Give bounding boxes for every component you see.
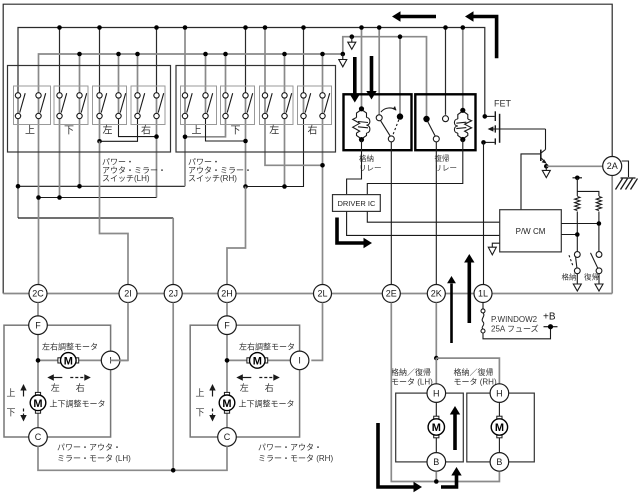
terminal H LH [427, 384, 446, 403]
svg-text:2A: 2A [607, 161, 618, 171]
svg-text:右: 右 [141, 124, 151, 137]
svg-text:FET: FET [494, 99, 512, 109]
wire relay2 coil to DRIVER IC [367, 140, 463, 195]
svg-text:DRIVER IC: DRIVER IC [337, 199, 376, 208]
up-down arrows LH [23, 388, 25, 397]
svg-text:1L: 1L [478, 289, 488, 299]
P/W CM box [500, 210, 562, 252]
wire RH col1+col3 join [184, 116, 186, 137]
flow arrow bottom (up hook) [441, 476, 457, 488]
wire I LH to 2I [111, 359, 128, 361]
wire relay1 coil to DRIVER IC [347, 140, 362, 195]
wire B: LH col2+col3+col8 to connector 2C [38, 116, 40, 294]
svg-text:下: 下 [195, 408, 204, 418]
wire E: RH col4+col6+col7 [246, 186, 285, 188]
wire connector row [3, 293, 612, 295]
relay1 coil [357, 110, 362, 118]
wire A: LH col1+col4 to RH col1 [17, 116, 19, 218]
relay1 contact motion arrow [381, 108, 396, 112]
wire bus2 riser and right segment [343, 37, 427, 116]
terminal bar with dot (power feed) [573, 177, 583, 179]
svg-text:C: C [35, 432, 42, 442]
wire RH col2+col4 join [206, 116, 246, 141]
wire relay2 contact to 2K [435, 142, 437, 294]
svg-text:2J: 2J [168, 289, 178, 299]
svg-text:上下調整モータ: 上下調整モータ [50, 399, 106, 409]
wire bus1 branch to LH col5 [99, 28, 101, 96]
svg-text:M: M [64, 355, 73, 367]
svg-text:2H: 2H [221, 289, 233, 299]
wire P/W CM right out1 [561, 223, 599, 225]
power outer mirror switch RH block [176, 66, 336, 153]
svg-text:P/W CM: P/W CM [516, 227, 546, 236]
wire bus1 branch to LH col8 [156, 28, 158, 96]
RH switch cell 2 [221, 86, 255, 125]
DRIVER IC box [333, 195, 381, 212]
wire ground loop: row left end up left edge, across top, down to 2A [3, 4, 612, 293]
svg-text:M: M [432, 422, 441, 434]
terminal I RH [290, 351, 309, 370]
wire 2C to F [37, 303, 39, 318]
wire row right end up to 2A [611, 175, 613, 294]
svg-text:2C: 2C [32, 289, 44, 299]
svg-text:左: 左 [269, 124, 279, 137]
svg-text:2L: 2L [317, 289, 327, 299]
wire H-M-B LH [435, 393, 437, 462]
motor M left-right RH [247, 358, 251, 363]
relay2 (return relay) box [415, 94, 475, 150]
wire DRIVER IC out2 to P/W CM [367, 211, 499, 222]
svg-text:C: C [224, 432, 231, 442]
RH switch cell 3 [260, 86, 294, 125]
svg-text:左: 左 [103, 124, 113, 137]
svg-text:モータ (LH): モータ (LH) [391, 378, 433, 387]
wire 2K down to junction [435, 303, 437, 359]
RH switch cell 4 [298, 86, 332, 125]
wire bus2 drop to relay1 contact right [399, 37, 401, 115]
LH switch cell 1 [14, 86, 51, 125]
wire I RH to 2L [311, 303, 322, 361]
svg-text:上: 上 [192, 125, 202, 137]
terminal F LH [29, 316, 48, 335]
connector 2C [29, 285, 47, 303]
svg-text:スイッチ(RH): スイッチ(RH) [188, 174, 237, 183]
svg-text:格納／復帰: 格納／復帰 [391, 367, 431, 377]
svg-text:パワー・アウタ・: パワー・アウタ・ [258, 443, 322, 452]
connector 2A [603, 157, 622, 176]
mirror motor box LH [4, 325, 111, 437]
flow arrow bottom (L-shaped) [378, 423, 414, 487]
switch 格納 (store) [574, 252, 580, 258]
wire bus2 branch to LH col7 [137, 54, 139, 95]
svg-text:M: M [495, 422, 504, 434]
motor M up-down RH [224, 392, 229, 396]
svg-text:2I: 2I [124, 289, 132, 299]
svg-text:上下調整モータ: 上下調整モータ [239, 399, 295, 409]
LH switch internal column wires [17, 95, 19, 116]
left-right arrows LH [51, 377, 62, 379]
wire 2A to chassis ground [622, 161, 629, 177]
switch contacts and blades [15, 93, 20, 98]
svg-text:モータ (RH): モータ (RH) [454, 378, 497, 387]
wire D: RH col5+col8 to connector 2L [265, 116, 323, 165]
wire bus2 (lower supply bus) [39, 54, 343, 95]
wire bus1 branch to RH col5 [264, 28, 266, 96]
svg-text:B: B [496, 457, 502, 467]
terminal C RH [218, 428, 237, 447]
wire bus2 branch to LH col6 [118, 54, 120, 95]
power outer mirror switch LH block [8, 66, 171, 153]
FET symbol [485, 115, 495, 117]
wire bus2 branch to RH col8 [322, 54, 324, 95]
svg-text:ミラー・モータ (RH): ミラー・モータ (RH) [258, 454, 333, 463]
wire junction to LH H [435, 358, 437, 384]
resistor R1 chain [576, 178, 578, 196]
LH switch cell 3 [93, 86, 127, 125]
svg-text:右: 右 [308, 124, 318, 137]
motor M left-right LH [58, 358, 62, 363]
wire P/W CM left stub to ground triangle [492, 243, 499, 247]
svg-text:下: 下 [64, 126, 74, 137]
store/return motor RH box [467, 393, 535, 462]
svg-text:右: 右 [76, 382, 85, 393]
wire C: to connector 2J [18, 217, 173, 219]
wire bus1 (upper supply bus) [18, 28, 485, 117]
motor M store RH [497, 416, 502, 420]
wire bus2 branch to RH col3 [225, 54, 227, 95]
switch 復帰 (return) [596, 252, 602, 258]
svg-text:H: H [496, 388, 503, 398]
svg-text:リレー: リレー [435, 164, 458, 173]
wire emitter to 2A [546, 165, 603, 167]
svg-text:I: I [298, 356, 301, 366]
+B terminal [544, 326, 558, 328]
wire bus1 drop to relay1 contact left [378, 28, 380, 116]
svg-text:左: 左 [51, 382, 60, 393]
ground triangle on bus2 junction [342, 54, 344, 59]
wire DRIVER IC out1 to P/W CM [347, 211, 500, 235]
svg-text:F: F [35, 320, 41, 330]
wire bus1 branch to LH col3 [59, 28, 61, 96]
mirror motor box RH [190, 325, 299, 437]
svg-text:下: 下 [231, 126, 241, 137]
svg-text:左右調整モータ: 左右調整モータ [42, 342, 98, 352]
wire bus1 branch to RH col4 [245, 28, 247, 96]
resistor R2 chain [577, 191, 599, 196]
flow arrow top left [401, 15, 437, 19]
wire F to C RH [226, 325, 228, 437]
svg-text:上: 上 [25, 125, 35, 137]
svg-text:格納: 格納 [562, 272, 577, 282]
fuse P.WINDOW2 25A [482, 303, 484, 310]
svg-text:M: M [33, 398, 42, 410]
wire base from P/W CM [521, 154, 541, 210]
svg-text:2E: 2E [386, 289, 397, 299]
wire C LH / C RH joined to 2J [38, 446, 227, 470]
wire F to C LH [37, 325, 39, 437]
svg-text:上: 上 [195, 388, 204, 398]
wire relay1 contact to 2E [390, 142, 392, 294]
svg-text:左: 左 [240, 382, 249, 393]
wire FET source down to 1L [483, 142, 485, 293]
wire B row to 2E [391, 303, 499, 482]
svg-text:スイッチ(LH): スイッチ(LH) [102, 174, 150, 183]
svg-text:下: 下 [6, 408, 15, 418]
relay1 contact [376, 115, 382, 121]
wire junction to RH H [436, 358, 499, 384]
flow arrow up near 2K [450, 284, 453, 344]
up-down arrows RH [212, 388, 214, 397]
svg-text:M: M [253, 355, 262, 367]
chassis ground symbol [621, 177, 636, 179]
svg-text:M: M [222, 398, 231, 410]
left-right arrows RH [240, 377, 251, 379]
wire LH col6+col8 join [119, 116, 157, 137]
wire bus2 branch to RH col2 [205, 54, 207, 95]
connector 1L [474, 285, 492, 303]
svg-text:F: F [224, 320, 230, 330]
flow arrows into relay1 [353, 57, 357, 94]
wire bus1 drop to relay2 contact mid [445, 28, 447, 115]
flow arrow at DRIVER IC (L-shaped) [337, 218, 364, 244]
svg-text:格納／復帰: 格納／復帰 [454, 367, 494, 377]
terminal H RH [490, 384, 509, 403]
wire 2H to F RH [226, 303, 228, 318]
wire bus2 branch to LH col4 [79, 54, 81, 95]
wire bus1 branch to RH col1 [184, 28, 186, 96]
relay2 coil [463, 111, 468, 119]
svg-text:2K: 2K [431, 289, 442, 299]
ground triangle below emitter [545, 166, 547, 170]
RH switch internal column wires [184, 95, 186, 116]
connector 2K [427, 285, 445, 303]
wire bus2 branch to RH col6 [284, 54, 286, 95]
flow arrow up near 1L [467, 263, 471, 324]
svg-text:+B: +B [543, 312, 556, 323]
connector 2L [314, 285, 332, 303]
svg-text:復帰: 復帰 [584, 272, 599, 282]
svg-text:P.WINDOW2: P.WINDOW2 [491, 315, 538, 324]
terminal I LH [101, 351, 120, 370]
wire to M1 RH [227, 359, 257, 361]
wire P/W CM right out2 [561, 234, 577, 236]
LH switch cell 2 [54, 86, 88, 125]
connector 2I [119, 285, 137, 303]
store/return motor LH box [396, 393, 464, 462]
wire bus1 drop to relay2 coil [462, 28, 464, 111]
svg-text:リレー: リレー [359, 164, 382, 173]
svg-text:B: B [433, 457, 439, 467]
motor M up-down LH [35, 392, 40, 396]
LH switch cell 4 [131, 86, 165, 125]
wire LH col5 to connector 2I [100, 141, 129, 293]
relay2 contact [423, 116, 429, 122]
motor M store LH [434, 416, 439, 420]
terminal C LH [29, 428, 48, 447]
connector 2J [164, 285, 182, 303]
flow arrow up inside LH motor box [453, 415, 457, 451]
svg-text:H: H [433, 388, 440, 398]
terminal B LH [427, 453, 446, 472]
svg-text:左右調整モータ: 左右調整モータ [239, 342, 295, 352]
terminal F RH [218, 316, 237, 335]
wire bus1 branch to RH col7 [303, 28, 305, 96]
wire to M1 LH [38, 359, 68, 361]
transistor Q1 [545, 129, 547, 150]
svg-text:パワー・アウタ・: パワー・アウタ・ [57, 443, 121, 452]
relay1 (storage relay) box [344, 94, 412, 150]
svg-text:ミラー・モータ (LH): ミラー・モータ (LH) [57, 454, 131, 463]
flow arrow top right (L-shaped) [474, 17, 497, 59]
svg-text:上: 上 [6, 388, 15, 398]
RH switch cell 1 [181, 86, 217, 125]
connector 2E [382, 285, 400, 303]
wire bus1 drop to relay1 coil [361, 28, 363, 109]
wire H-M-B RH [498, 393, 500, 462]
wire RH col4 to connector 2H with jog [227, 187, 246, 294]
terminal B RH [490, 453, 509, 472]
svg-text:25A フューズ: 25A フューズ [491, 324, 539, 334]
svg-text:右: 右 [265, 382, 274, 393]
wire LH col5+col7 join (mirror select left) [99, 116, 101, 141]
ground triangle on bus2 right segment [351, 37, 353, 42]
connector 2H [218, 285, 236, 303]
